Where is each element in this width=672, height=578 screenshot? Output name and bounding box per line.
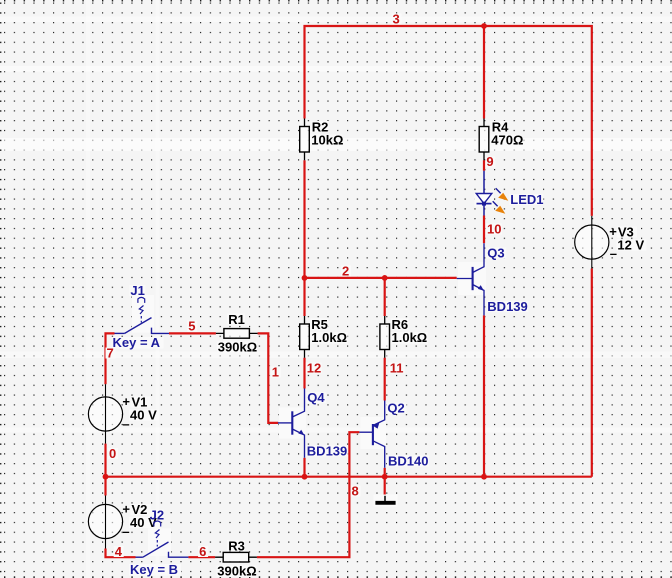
label LED1 (509, 192, 543, 207)
label R5 (311, 317, 329, 332)
svg-text:R3: R3 (228, 538, 245, 553)
node 5 (187, 319, 197, 334)
value 390kOhm (217, 563, 257, 578)
svg-text:5: 5 (188, 319, 195, 334)
value 40 V (129, 515, 159, 530)
svg-text:Q3: Q3 (487, 246, 504, 261)
junction net 0 / Q3 emitter (481, 474, 487, 480)
svg-text:6: 6 (199, 544, 206, 559)
value 470Ohm (491, 132, 524, 147)
label Key = B (129, 562, 181, 577)
svg-text:LED1: LED1 (510, 192, 543, 207)
wire net 1 R1 to Q4 base (258, 333, 279, 423)
wire net 3 R4 stub (483, 26, 485, 119)
svg-text:BD139: BD139 (487, 299, 527, 314)
label BD139 (306, 444, 348, 459)
transistor Q2 (359, 401, 386, 468)
svg-text:10: 10 (487, 222, 501, 237)
svg-text:390kΩ: 390kΩ (217, 563, 256, 578)
value 390kOhm (217, 339, 257, 354)
node 6 (198, 544, 208, 559)
label BD139 (486, 299, 528, 314)
node 4 (114, 544, 124, 559)
svg-text:470Ω: 470Ω (491, 132, 523, 147)
wire Q3 emitter to net 0 (483, 315, 485, 476)
svg-text:J1: J1 (130, 283, 144, 298)
svg-text:1: 1 (272, 365, 279, 380)
switch J1 (115, 295, 170, 333)
wire net 0 to ground (384, 477, 386, 496)
svg-text:1.0kΩ: 1.0kΩ (392, 330, 428, 345)
wire net 2 to R6 (384, 278, 386, 316)
arrow Q2 emitter (373, 423, 380, 429)
wire net 2 bus (305, 277, 457, 279)
value 10kOhm (311, 132, 344, 147)
wire Q4 emitter to net 0 (303, 458, 305, 477)
value 40 V (129, 407, 159, 422)
svg-text:12 V: 12 V (617, 237, 644, 252)
wire net 9 R4 to LED1 (483, 160, 485, 171)
svg-text:10kΩ: 10kΩ (311, 132, 343, 147)
value 1.0kOhm (311, 330, 348, 345)
svg-text:J2: J2 (150, 508, 164, 523)
svg-text:40 V: 40 V (130, 407, 157, 422)
label Q4 (306, 390, 326, 405)
svg-text:BD139: BD139 (307, 444, 347, 459)
transistor Q3 (457, 243, 486, 315)
resistor R4 (479, 119, 489, 161)
junction net 2 / R6 (382, 275, 388, 281)
svg-text:Key = A: Key = A (113, 335, 161, 350)
resistor R3 (215, 552, 257, 562)
node 0 (108, 446, 118, 461)
label R6 (391, 317, 409, 332)
wire net 2 to R5 (303, 278, 305, 316)
label J1 (129, 283, 145, 298)
junction net 0 / V1 (103, 474, 109, 480)
junction net 0 / Q4 emitter (302, 474, 308, 480)
label R1 (227, 312, 245, 327)
wire net 8 R3 to Q2 base (257, 432, 360, 557)
node 9 (485, 154, 495, 169)
svg-text:9: 9 (486, 154, 493, 169)
wire net 6 J2 to R3 (188, 556, 215, 558)
node 7 (106, 346, 116, 361)
LED1 light arrow lower (493, 201, 506, 214)
node 1 (271, 365, 281, 380)
LED1 (475, 171, 494, 216)
svg-text:7: 7 (107, 346, 114, 361)
svg-text:Q4: Q4 (307, 390, 325, 405)
wire V3 to net 0 (591, 269, 593, 477)
label Q2 (386, 401, 406, 416)
svg-text:4: 4 (115, 544, 123, 559)
svg-text:Q2: Q2 (387, 401, 404, 416)
svg-text:0: 0 (109, 446, 116, 461)
label Q3 (486, 246, 506, 261)
arrow Q4 emitter (298, 430, 304, 436)
svg-text:11: 11 (390, 361, 404, 376)
wire net 10 LED1 to Q3 collector (483, 216, 485, 244)
switch J2 (136, 521, 189, 557)
label R3 (227, 538, 245, 553)
label R4 (491, 119, 510, 134)
resistor R2 (300, 119, 310, 161)
svg-text:2: 2 (342, 264, 349, 279)
label BD140 (387, 454, 429, 469)
label R2 (311, 119, 329, 134)
ground (374, 495, 398, 507)
resistor R6 (380, 316, 390, 358)
value 12 V (616, 237, 646, 252)
wire Q2 collector to net 0 (384, 468, 386, 477)
source V3 (575, 216, 609, 269)
junction net 3 / R4 (481, 23, 487, 29)
source V1 (88, 384, 122, 443)
arrow Q3 emitter (478, 285, 484, 291)
node 10 (486, 222, 502, 237)
svg-text:3: 3 (393, 12, 400, 27)
svg-text:R1: R1 (228, 312, 245, 327)
wire net 0 to V2 plus (104, 477, 106, 496)
node 12 (306, 361, 322, 376)
node 2 (341, 264, 351, 279)
junction net 0 / ground (382, 474, 388, 480)
wire net 0 bottom bus (106, 476, 592, 478)
svg-text:–: – (122, 417, 129, 432)
label V1 (131, 395, 151, 410)
label J2 (149, 508, 164, 523)
wire net 12 R5 to Q4 collector (303, 358, 305, 389)
transistor Q4 (278, 389, 306, 458)
label V3 (617, 225, 637, 240)
svg-text:Key = B: Key = B (130, 562, 178, 577)
value 1.0kOhm (391, 330, 428, 345)
wire V1 plus to J1 (106, 333, 115, 384)
svg-text:8: 8 (352, 484, 359, 499)
LED1 light arrow upper (496, 188, 509, 201)
source V2 (88, 496, 122, 549)
label V2 (131, 502, 151, 517)
node 8 (351, 484, 361, 499)
junction net 2 / R2 (302, 275, 308, 281)
svg-text:+: + (609, 224, 617, 239)
wire V1 minus to net 0 (104, 444, 106, 477)
wire net 11 R6 to Q2 emitter (384, 358, 386, 401)
node 11 (389, 361, 405, 376)
wire net 3 top bus (305, 26, 592, 216)
label Key = A (112, 335, 164, 350)
svg-text:12: 12 (307, 361, 321, 376)
wire R2 bottom to net 2 (303, 160, 305, 278)
svg-text:–: – (610, 246, 617, 261)
svg-text:–: – (122, 524, 129, 539)
resistor R1 (216, 329, 258, 339)
resistor R5 (300, 316, 310, 358)
svg-text:1.0kΩ: 1.0kΩ (311, 330, 347, 345)
svg-text:390kΩ: 390kΩ (218, 339, 257, 354)
node 3 (392, 12, 402, 27)
wire V2 minus to J2 (106, 549, 136, 558)
svg-text:BD140: BD140 (388, 454, 428, 469)
wire net 5 J1 to R1 (169, 332, 216, 334)
